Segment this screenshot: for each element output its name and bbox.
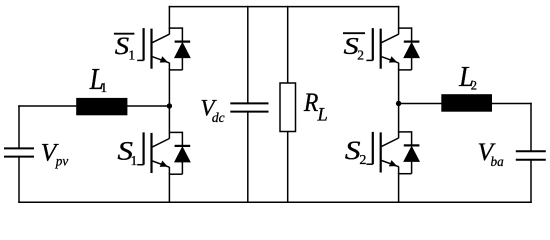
svg-text:1: 1: [131, 153, 138, 168]
svg-text:dc: dc: [212, 110, 225, 125]
wire left vertical upper: [18, 106, 20, 148]
wire RL branch upper: [287, 7, 289, 83]
wire Vdc branch lower: [247, 112, 249, 203]
node right midpoint junction: [396, 101, 401, 106]
svg-text:pv: pv: [55, 153, 69, 168]
wire top rail: [169, 6, 398, 8]
transistor S2 (bottom-right IGBT with antiparallel diode): [366, 131, 419, 174]
wire left leg emitter-to-rail: [168, 174, 170, 202]
wire right leg mid segment: [398, 70, 400, 132]
capacitor Vdc: [230, 103, 268, 111]
wire right vertical lower: [530, 160, 532, 203]
wire bottom rail: [19, 201, 531, 203]
svg-text:1: 1: [128, 48, 135, 63]
svg-text:1: 1: [100, 80, 107, 95]
transistor S1bar (top-left IGBT with antiparallel diode): [137, 27, 190, 70]
wire right leg emitter-to-rail: [398, 174, 400, 203]
wire left mid horizontal: [19, 105, 169, 107]
inductor L1: [76, 98, 127, 115]
wire left leg mid segment: [168, 70, 170, 132]
wire Vdc branch upper: [247, 7, 249, 104]
wire left vertical lower: [18, 157, 20, 203]
label S1bar overline: [114, 33, 134, 35]
transistor S2bar (top-right IGBT with antiparallel diode): [366, 27, 419, 70]
svg-text:S: S: [345, 136, 361, 165]
svg-text:L: L: [317, 105, 328, 125]
svg-text:S: S: [115, 31, 130, 59]
label S2bar overline: [343, 32, 365, 34]
svg-text:ba: ba: [491, 154, 505, 169]
wire left leg collector lead: [168, 7, 170, 29]
wire right vertical upper: [530, 104, 532, 152]
svg-text:R: R: [303, 89, 318, 117]
svg-text:2: 2: [471, 78, 477, 92]
transistor S1 (bottom-left IGBT with antiparallel diode): [137, 132, 190, 175]
capacitor Vba: [516, 151, 546, 159]
capacitor Vpv: [4, 148, 34, 156]
svg-text:2: 2: [357, 48, 364, 63]
resistor RL: [280, 83, 296, 132]
node left midpoint junction: [167, 103, 172, 108]
wire RL branch lower: [287, 132, 289, 203]
wire right mid horizontal: [399, 103, 531, 105]
inductor L2: [441, 94, 492, 112]
svg-text:2: 2: [359, 152, 366, 168]
wire right leg collector lead: [398, 7, 400, 29]
